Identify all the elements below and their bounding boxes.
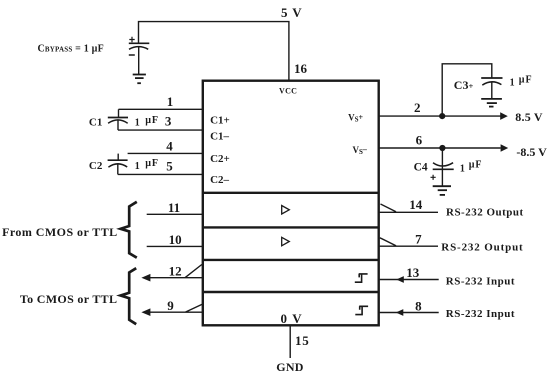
svg-text:C1: C1	[89, 117, 102, 129]
svg-text:C1–: C1–	[210, 131, 229, 143]
capacitor C1	[108, 109, 128, 130]
wire pin 12	[143, 265, 203, 278]
svg-text:8: 8	[415, 299, 422, 314]
svg-text:VCC: VCC	[279, 87, 297, 96]
svg-text:GND: GND	[276, 360, 304, 374]
brace to CMOS	[121, 268, 137, 324]
svg-text:16: 16	[294, 61, 308, 76]
driver U1A triangle	[282, 206, 290, 215]
svg-text:3: 3	[165, 114, 172, 129]
ground (C3)	[481, 99, 502, 107]
wire pin 14	[379, 204, 438, 212]
arrow pin 9 to CMOS	[141, 308, 150, 316]
svg-text:RS-232 Input: RS-232 Input	[446, 308, 515, 320]
svg-text:CBYPASS = 1 µF: CBYPASS = 1 µF	[38, 44, 104, 55]
svg-text:C1+: C1+	[210, 115, 230, 127]
wire 5V top rail to pin 16	[139, 22, 289, 80]
svg-text:RS-232 Output: RS-232 Output	[441, 242, 523, 254]
svg-text:11: 11	[168, 200, 180, 215]
ground (C4)	[433, 186, 451, 195]
wire pin 9	[143, 304, 203, 312]
wire pin 6 (VS-)	[379, 147, 501, 149]
svg-text:µF: µF	[519, 75, 533, 86]
svg-text:9: 9	[167, 298, 174, 313]
svg-text:5: 5	[281, 5, 288, 20]
svg-text:14: 14	[409, 197, 423, 212]
capacitor C2	[108, 154, 128, 175]
svg-text:C2+: C2+	[210, 153, 230, 165]
svg-text:-8.5 V: -8.5 V	[516, 145, 547, 159]
capacitor CBYPASS	[129, 37, 150, 74]
svg-text:1: 1	[460, 164, 465, 175]
svg-text:RS-232 Input: RS-232 Input	[446, 276, 515, 288]
svg-text:1: 1	[510, 78, 515, 89]
svg-text:C2–: C2–	[210, 174, 229, 186]
ground (bypass)	[133, 75, 146, 84]
wire pin 3	[118, 129, 203, 131]
svg-text:1: 1	[135, 161, 140, 172]
arrow pin 13 input	[396, 276, 404, 283]
svg-text:µF: µF	[145, 158, 159, 169]
wire pin 1	[119, 108, 203, 110]
svg-text:µF: µF	[469, 160, 483, 171]
capacitor C3	[481, 78, 502, 99]
wire pin 8	[379, 312, 439, 314]
svg-text:C3+: C3+	[454, 78, 474, 92]
svg-text:15: 15	[295, 333, 310, 348]
divider 2	[203, 226, 379, 228]
svg-text:µF: µF	[145, 115, 159, 126]
svg-text:V: V	[292, 311, 302, 326]
svg-text:8.5 V: 8.5 V	[515, 110, 543, 124]
svg-text:2: 2	[414, 100, 421, 115]
node pin6/C4 junction	[439, 145, 445, 151]
wire C3 loop	[442, 64, 492, 116]
arrow pin 12 to CMOS	[141, 274, 150, 282]
arrow -8.5V output	[501, 144, 509, 152]
svg-text:0: 0	[281, 311, 288, 326]
driver U1B triangle	[282, 237, 290, 246]
wire pin 15 to GND	[289, 326, 291, 359]
wire pin 2 (VS+)	[379, 115, 502, 117]
arrow 8.5V output	[500, 112, 508, 120]
svg-text:From CMOS or TTL: From CMOS or TTL	[2, 225, 118, 239]
svg-text:RS-232 Output: RS-232 Output	[446, 207, 524, 219]
svg-text:13: 13	[406, 265, 420, 280]
wire pin 13	[379, 279, 439, 281]
arrow pin 8 input	[396, 309, 404, 316]
receiver U1C hysteresis symbol	[355, 274, 368, 283]
svg-text:10: 10	[169, 232, 182, 247]
wire pin 10	[147, 245, 203, 247]
svg-text:C2: C2	[89, 160, 103, 172]
svg-text:6: 6	[416, 132, 423, 147]
svg-text:To CMOS or TTL: To CMOS or TTL	[20, 292, 117, 306]
divider 1	[203, 192, 379, 194]
divider 3	[203, 259, 379, 261]
svg-text:7: 7	[415, 232, 422, 247]
wire pin 11	[147, 213, 203, 215]
wire pin 5	[118, 173, 203, 175]
IC box MAX232	[203, 81, 379, 326]
svg-text:1: 1	[167, 94, 174, 109]
wire pin 7	[379, 238, 438, 247]
svg-text:1: 1	[135, 118, 140, 129]
svg-text:12: 12	[169, 264, 182, 279]
divider 4	[203, 291, 379, 293]
svg-text:5: 5	[166, 158, 173, 173]
svg-text:4: 4	[166, 138, 173, 153]
svg-text:C4: C4	[414, 161, 428, 173]
svg-text:V: V	[292, 5, 302, 20]
capacitor C4	[431, 150, 454, 186]
receiver U1D hysteresis symbol	[355, 306, 368, 315]
node pin2/C3 junction	[439, 113, 445, 119]
brace from CMOS	[121, 202, 137, 258]
wire pin 4	[128, 152, 203, 154]
